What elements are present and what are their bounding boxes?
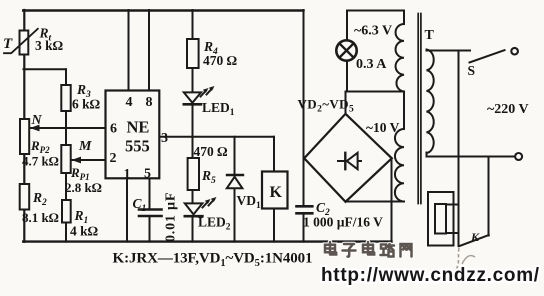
relay K box — [262, 172, 288, 209]
watermark cndzz glyphs — [325, 242, 412, 257]
svg-text:555: 555 — [125, 137, 150, 156]
svg-text:8: 8 — [146, 95, 153, 110]
svg-text:5: 5 — [144, 167, 151, 182]
svg-text:1 000 µF/16 V: 1 000 µF/16 V — [303, 215, 383, 230]
svg-text:4: 4 — [126, 95, 133, 110]
svg-text:0.3 A: 0.3 A — [356, 57, 387, 72]
svg-text:1: 1 — [124, 167, 131, 182]
thermistor RT diagonal — [4, 29, 38, 53]
svg-text:2.8 kΩ: 2.8 kΩ — [65, 180, 102, 195]
thermistor RT box — [20, 31, 29, 55]
wire heater branch — [458, 51, 460, 247]
relay contact motion arrow faint — [457, 248, 460, 269]
heater element leads — [446, 205, 459, 234]
wire VD1 column — [234, 137, 236, 242]
watermark — [321, 242, 540, 286]
heater element — [435, 204, 446, 234]
LED2 — [185, 203, 203, 214]
node M wire — [71, 159, 106, 161]
wire primary top to switch — [427, 50, 471, 52]
wire left rail — [23, 10, 25, 242]
terminal circle top — [511, 48, 518, 55]
svg-text:~6.3 V: ~6.3 V — [354, 24, 392, 39]
relay contact K arm — [459, 235, 489, 246]
svg-text:T: T — [3, 36, 13, 52]
svg-text:T: T — [425, 28, 435, 43]
svg-text:LED2: LED2 — [198, 215, 231, 233]
wire pin 3 output — [159, 136, 274, 138]
IC NE555 box — [106, 91, 160, 179]
wire lamp loop — [347, 11, 404, 92]
svg-text:R5: R5 — [201, 168, 216, 186]
wire branch to R3 — [24, 68, 67, 70]
svg-text:470 Ω: 470 Ω — [203, 53, 238, 68]
wire top rail — [23, 9, 303, 11]
node M arrowhead — [71, 157, 81, 164]
wire pin 8 to rail — [148, 10, 150, 91]
LED1 — [184, 92, 201, 102]
svg-text:S: S — [468, 63, 476, 78]
LED1 arrows — [201, 86, 215, 97]
svg-text:K:JRX—13F,VD1~VD5:1N4001: K:JRX—13F,VD1~VD5:1N4001 — [113, 251, 313, 270]
svg-text:4 kΩ: 4 kΩ — [70, 224, 99, 239]
wire bottom rail — [23, 240, 391, 242]
transformer winding W1 6.3V — [396, 24, 404, 92]
svg-text:http://www.cndzz.com/: http://www.cndzz.com/ — [321, 265, 540, 286]
wire pin 1 to ground rail — [126, 178, 128, 242]
transformer primary winding — [427, 50, 434, 154]
resistor R3 — [61, 85, 70, 111]
potentiometer RP2 — [20, 119, 29, 154]
svg-text:6: 6 — [110, 122, 117, 137]
svg-text:M: M — [78, 139, 92, 154]
wire terminal 2 drop — [488, 157, 490, 236]
bridge rectifier diamond VD2-VD5 — [304, 114, 392, 202]
transformer winding W2 10V — [395, 129, 404, 202]
resistor R2 — [20, 184, 30, 210]
LED2 arrows — [203, 197, 217, 208]
resistor R4 — [187, 39, 199, 68]
capacitor C2 — [297, 206, 313, 213]
svg-text:6 kΩ: 6 kΩ — [72, 97, 101, 112]
wire bridge top ac lead — [345, 92, 347, 114]
wire pin 4 to rail — [128, 10, 130, 91]
svg-text:R2: R2 — [32, 190, 47, 208]
wire pin 5 to C1 — [149, 178, 151, 210]
heater outer box — [428, 192, 454, 246]
bridge internal diode — [338, 160, 361, 162]
wire C2 to ground rail — [303, 214, 305, 242]
svg-text:2: 2 — [110, 151, 117, 166]
wire middle column — [65, 69, 67, 241]
svg-text:4.7 kΩ: 4.7 kΩ — [22, 154, 59, 169]
svg-text:3: 3 — [161, 131, 168, 146]
wire relay K column — [273, 137, 275, 242]
svg-text:RP2: RP2 — [30, 138, 50, 155]
svg-text:3 kΩ: 3 kΩ — [35, 38, 64, 53]
svg-text:K: K — [470, 230, 480, 244]
potentiometer RP1 — [61, 145, 70, 173]
node N wire — [30, 127, 106, 129]
svg-text:C1: C1 — [133, 196, 147, 214]
resistor R1 — [62, 200, 71, 223]
node N arrowhead — [30, 125, 40, 132]
svg-text:N: N — [31, 113, 43, 128]
svg-text:~220 V: ~220 V — [487, 102, 529, 117]
wire winding tap — [403, 92, 405, 130]
transformer core — [418, 14, 421, 204]
svg-text:VD1: VD1 — [237, 193, 262, 211]
lamp 6.3V — [336, 40, 356, 60]
diode VD1 — [227, 174, 243, 176]
svg-text:NE: NE — [127, 118, 150, 137]
wire right dc+ rail — [303, 10, 305, 206]
svg-text:K: K — [270, 184, 283, 201]
resistor R5 — [188, 158, 199, 190]
wire bridge dc- drop — [391, 158, 393, 241]
wire primary bottom to terminal — [427, 153, 516, 157]
svg-text:0.01 µF: 0.01 µF — [164, 192, 179, 242]
terminal circle bottom — [515, 153, 522, 160]
switch S lever — [470, 50, 505, 62]
wire R4 LED1 column — [192, 10, 194, 242]
svg-text:470 Ω: 470 Ω — [194, 144, 229, 159]
svg-text:~10 V: ~10 V — [366, 120, 400, 135]
wire C1 to ground rail — [149, 216, 151, 242]
capacitor C1 — [139, 210, 162, 217]
svg-text:8.1 kΩ: 8.1 kΩ — [22, 210, 59, 225]
wire winding2 bottom to bridge — [346, 201, 405, 203]
svg-text:LED1: LED1 — [202, 100, 235, 118]
